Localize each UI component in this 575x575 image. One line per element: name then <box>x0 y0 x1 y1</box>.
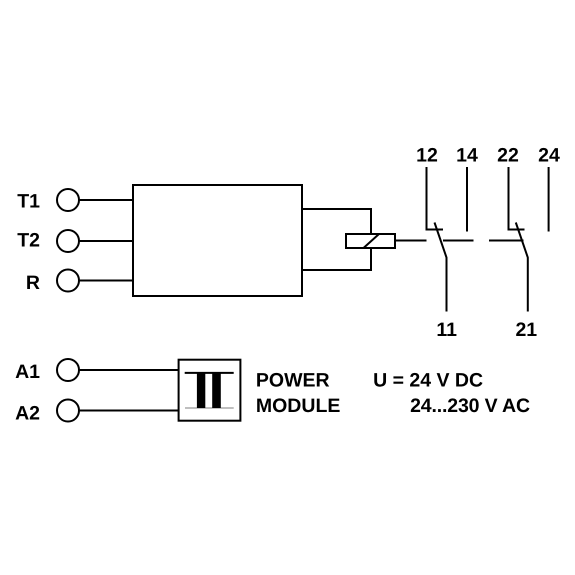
svg-text:U = 24 V DC: U = 24 V DC <box>373 370 483 392</box>
svg-text:14: 14 <box>456 145 478 167</box>
svg-text:24: 24 <box>538 145 560 167</box>
svg-text:A1: A1 <box>15 361 40 383</box>
svg-text:21: 21 <box>515 319 537 341</box>
svg-text:R: R <box>26 272 40 294</box>
svg-text:11: 11 <box>436 319 457 341</box>
svg-text:T2: T2 <box>17 230 40 252</box>
svg-text:24...230 V AC: 24...230 V AC <box>410 395 530 417</box>
svg-text:POWER: POWER <box>256 370 330 392</box>
svg-text:22: 22 <box>497 145 519 167</box>
svg-text:MODULE: MODULE <box>256 395 341 417</box>
svg-text:T1: T1 <box>17 190 40 212</box>
svg-text:12: 12 <box>416 145 438 167</box>
svg-text:A2: A2 <box>15 403 40 425</box>
